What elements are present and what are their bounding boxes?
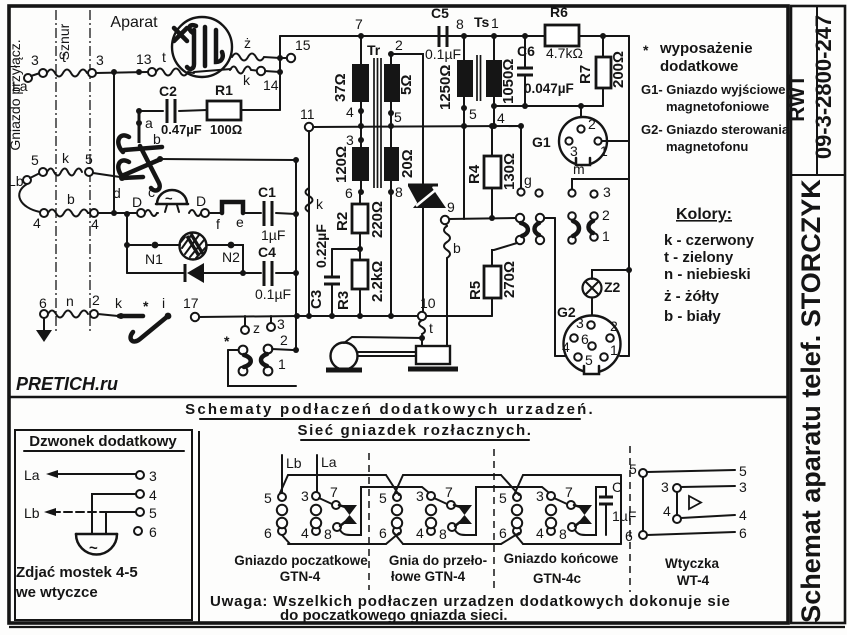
junction node row1-b (136, 69, 142, 75)
svg-text:4: 4 (562, 339, 570, 355)
junction bus126 R4 (489, 123, 495, 129)
svg-text:C2: C2 (159, 83, 177, 99)
svg-text:14: 14 (263, 77, 279, 93)
svg-text:*: * (224, 333, 230, 349)
cord zone dash-dot line left (55, 10, 57, 333)
svg-text:g: g (524, 172, 532, 188)
terminal 5 apparatus side (85, 151, 93, 176)
svg-text:R2: R2 (334, 212, 351, 231)
transformer Ts (437, 14, 517, 110)
junction node 14 (277, 69, 283, 75)
dzwonek wiring to ringer (92, 494, 136, 533)
svg-text:R7: R7 (577, 65, 594, 84)
junction bus w1 (358, 123, 364, 129)
b conductor squiggle (444, 224, 461, 346)
socket GTN-4 pass tail to next (455, 487, 548, 535)
capacitor C4 0.1µF (255, 244, 291, 302)
hook switch contact c (140, 146, 160, 200)
dzwonek ringer (76, 534, 117, 557)
svg-text:11: 11 (300, 106, 315, 122)
wire row4 to k bar (98, 314, 118, 316)
svg-text:8: 8 (395, 184, 403, 200)
junction Ts5 bus126 (461, 123, 467, 129)
svg-text:4: 4 (91, 216, 99, 232)
node N1 (145, 242, 163, 267)
main bottom bus y316 (309, 315, 492, 317)
svg-text:5Ω: 5Ω (398, 75, 415, 95)
wire 17 to bus (199, 316, 297, 317)
dashed separator 3 (629, 446, 631, 592)
svg-text:RWT: RWT (786, 74, 809, 122)
svg-text:R3: R3 (335, 291, 352, 310)
terminal D left (132, 194, 145, 217)
contact group box (228, 350, 296, 386)
svg-text:4: 4 (346, 104, 354, 120)
terminal 14 (257, 67, 279, 93)
svg-text:3: 3 (277, 316, 285, 332)
svg-text:c: c (148, 184, 155, 200)
svg-text:we wtyczce: we wtyczce (15, 584, 98, 601)
svg-text:3: 3 (416, 488, 424, 504)
svg-text:4.7kΩ: 4.7kΩ (546, 45, 583, 61)
svg-text:3: 3 (149, 468, 157, 484)
legend G2 (641, 122, 790, 154)
wire riser x280 (279, 36, 281, 110)
socket3 right edge (620, 475, 622, 544)
svg-text:R1: R1 (215, 82, 233, 98)
junction Ts4 bus126 (491, 123, 497, 129)
socket GTN-4c end hull top (523, 474, 621, 476)
node 3 tap (346, 132, 364, 148)
connector G2 (555, 304, 629, 376)
svg-text:5: 5 (739, 463, 747, 479)
junction node right riser top (293, 157, 299, 163)
svg-text:3: 3 (576, 315, 584, 331)
socket GTN-4 initial tail to next (340, 487, 428, 535)
socket GTN-4 initial contact 6 (264, 525, 286, 541)
svg-text:4: 4 (301, 525, 309, 541)
socket GTN-4c end contact 7 (565, 484, 575, 509)
svg-text:1: 1 (602, 228, 610, 244)
wire 15 stub (280, 57, 287, 59)
socket GTN-4c end tail to next (575, 487, 606, 535)
svg-text:3: 3 (570, 143, 578, 159)
svg-text:4: 4 (663, 503, 671, 519)
svg-text:i: i (162, 295, 165, 311)
svg-text:100Ω: 100Ω (210, 122, 242, 137)
socket GTN-4 pass hull top (403, 474, 501, 476)
svg-text:3: 3 (346, 132, 354, 148)
svg-text:1: 1 (610, 342, 618, 358)
junction node row1-a (111, 69, 117, 75)
wire row3 to D (98, 212, 137, 214)
svg-text:6: 6 (581, 331, 589, 347)
svg-text:17: 17 (183, 295, 199, 311)
svg-text:6: 6 (345, 185, 353, 201)
svg-text:D: D (132, 194, 142, 210)
svg-text:5: 5 (394, 109, 402, 125)
junction 11 bus bottom (306, 313, 312, 319)
wire t squiggle to dial (156, 69, 194, 76)
wire winding8 column (390, 192, 392, 316)
svg-text:6: 6 (149, 524, 157, 540)
socket GTN-4 initial contact 5 (264, 490, 286, 506)
svg-text:6: 6 (379, 525, 387, 541)
terminal 10 (418, 295, 436, 320)
legend Kolory (664, 206, 755, 325)
svg-text:C3: C3 (308, 290, 325, 309)
dzwonek terminal 3 (136, 468, 157, 484)
terminal 4 socket side (33, 209, 48, 231)
socket GTN-4c end contact 4 (536, 525, 555, 541)
capacitor C2 (159, 83, 202, 137)
title block strip (791, 6, 845, 623)
svg-text:*: * (143, 298, 149, 314)
svg-text:3: 3 (536, 488, 544, 504)
terminal 3 socket side (39, 69, 47, 77)
junction diode row (240, 270, 246, 276)
terminal 17 (183, 295, 199, 321)
svg-text:5: 5 (629, 461, 637, 477)
svg-text:20Ω: 20Ω (399, 149, 416, 178)
dzwonek note (15, 564, 138, 601)
svg-text:5: 5 (499, 490, 507, 506)
socket GTN-4 pass wire 3 to 7 (434, 498, 447, 504)
wire f-e to C1 (243, 212, 261, 214)
svg-text:n: n (66, 293, 74, 309)
strap f-e (216, 202, 244, 232)
wire C4 to riser (276, 272, 296, 274)
svg-text:0.47µF: 0.47µF (161, 122, 202, 137)
svg-text:C: C (612, 479, 622, 495)
caption socket2 (389, 553, 487, 584)
socket GTN-4 pass contact 3 (416, 488, 435, 504)
t conductor squiggle (419, 320, 433, 337)
wire R1 to riser (241, 109, 280, 111)
svg-text:Z2: Z2 (604, 279, 621, 295)
svg-text:GTN-4: GTN-4 (280, 569, 321, 584)
wire t cord conductor (47, 70, 87, 77)
socket GTN-4 initial contact 8 (324, 523, 341, 542)
riser x296 main (295, 160, 297, 350)
svg-text:4: 4 (497, 110, 505, 126)
junction R4 bottom (489, 215, 495, 221)
svg-text:2: 2 (395, 37, 403, 53)
socket GTN-4 initial plug wedge (339, 505, 357, 526)
socket GTN-4 initial contact 3 (301, 488, 320, 504)
dzwonek terminal 6 (134, 524, 157, 540)
svg-text:13: 13 (136, 51, 152, 67)
dzwonek terminal 5 (136, 505, 157, 521)
svg-text:3: 3 (739, 479, 747, 495)
svg-text:5: 5 (469, 106, 477, 122)
wire diode row left (127, 272, 184, 274)
svg-text:m: m (573, 161, 585, 177)
svg-text:Lb: Lb (8, 173, 24, 189)
svg-text:Schemat aparatu telef. STORCZY: Schemat aparatu telef. STORCZYK (796, 179, 826, 623)
svg-text:Sieć gniazdek rozłacznych.: Sieć gniazdek rozłacznych. (297, 422, 532, 439)
resistor R1 100Ω (207, 82, 242, 137)
varistor element (158, 233, 228, 260)
right riser x629 (628, 36, 630, 356)
junction 17-bus riser (294, 313, 300, 319)
contact pair left (*) (224, 333, 251, 375)
svg-text:La: La (12, 78, 28, 94)
wire row1 to terminal 13 (96, 72, 148, 73)
terminal D right (196, 193, 209, 217)
socket GTN-4c end hull bottom (523, 543, 621, 545)
capacitor C1 1µF (258, 184, 285, 243)
svg-text:270Ω: 270Ω (501, 261, 518, 298)
hook switch contact a (136, 113, 153, 143)
wire N2 corner (234, 245, 243, 273)
junction R3 bus (357, 313, 363, 319)
terminal 3 bottom (267, 316, 285, 332)
socket GTN-4c end spring 3-4 (546, 505, 556, 528)
svg-text:7: 7 (445, 484, 453, 500)
svg-text:Ts: Ts (474, 14, 490, 30)
svg-text:C6: C6 (517, 43, 535, 59)
resistor R6 4.7kΩ (545, 4, 583, 61)
svg-text:R5: R5 (467, 281, 484, 300)
svg-text:wyposażenie: wyposażenie (659, 40, 753, 57)
socket GTN-4c end contact 5 (499, 490, 521, 506)
wire riser x127 (126, 214, 128, 273)
terminal z (241, 316, 260, 336)
wire C2 to R1 (179, 110, 207, 111)
svg-text:5: 5 (85, 151, 93, 167)
svg-text:7: 7 (355, 16, 363, 32)
socket GTN-4c end contact 6 (499, 525, 521, 541)
svg-text:k: k (316, 196, 324, 212)
dzwonek title (24, 433, 184, 451)
node N2 (222, 242, 240, 265)
svg-text:Gniazdo poczatkowe: Gniazdo poczatkowe (234, 553, 368, 568)
socket GTN-4 pass contact 6 (379, 525, 401, 541)
socket GTN-4c end plug wedge (574, 505, 592, 526)
svg-text:a: a (145, 115, 153, 131)
bottom section title (185, 401, 595, 419)
svg-text:4: 4 (536, 525, 544, 541)
svg-text:k: k (243, 72, 251, 88)
k conductor squiggle vertical (306, 188, 325, 212)
caption WT-4 (665, 556, 720, 588)
socket GTN-4c end contact 8 (559, 523, 576, 542)
hook switch contact b lower hook (118, 159, 161, 177)
svg-text:3: 3 (31, 52, 39, 68)
svg-text:09-3-2800-247: 09-3-2800-247 (811, 15, 836, 159)
socket GTN-4 pass contact 5 (379, 490, 401, 506)
wire 9 row (449, 218, 516, 219)
terminal 5 socket side (39, 168, 47, 176)
resistor R5 270Ω (467, 243, 518, 316)
dashed separator 2 (493, 449, 495, 590)
svg-text:4: 4 (33, 215, 41, 231)
svg-text:magnetofoniowe: magnetofoniowe (666, 99, 769, 114)
plug WT-4 body (643, 477, 701, 531)
connector G1 (532, 116, 629, 168)
junction R2R3 (357, 246, 363, 252)
junction N row left (124, 242, 130, 248)
caption socket1 (234, 553, 368, 584)
junction C1 riser (293, 211, 299, 217)
svg-text:0.22µF: 0.22µF (313, 224, 329, 268)
contact pair right 1-2 (261, 332, 293, 375)
svg-text:Zdjać mostek 4-5: Zdjać mostek 4-5 (16, 564, 138, 581)
junction Z2 riser (626, 267, 632, 273)
socket GTN-4 pass spring 5-6 (392, 505, 402, 528)
wire y106 row (522, 103, 528, 109)
terminal 15 (287, 37, 311, 62)
svg-text:1: 1 (491, 15, 499, 31)
junction bus w2 (388, 123, 394, 129)
svg-text:1050Ω: 1050Ω (500, 59, 517, 104)
svg-text:4: 4 (416, 525, 424, 541)
svg-text:1250Ω: 1250Ω (437, 65, 454, 110)
socket1 hull left slants (280, 475, 290, 544)
lamp Z2 (583, 270, 630, 316)
m link (568, 161, 629, 200)
svg-text:15: 15 (295, 37, 311, 53)
svg-text:220Ω: 220Ω (369, 201, 386, 238)
svg-text:k - czerwony: k - czerwony (664, 232, 755, 249)
terminal Lb (8, 173, 40, 189)
junction row3-b (124, 211, 130, 217)
svg-text:0.1µF: 0.1µF (425, 46, 461, 62)
svg-text:9: 9 (447, 199, 455, 215)
svg-text:~: ~ (89, 540, 98, 557)
svg-text:*: * (643, 42, 649, 58)
svg-text:5: 5 (149, 505, 157, 521)
svg-text:ż - żółty: ż - żółty (664, 288, 720, 305)
plug WT-4 contact 5 (629, 461, 747, 479)
svg-text:n - niebieski: n - niebieski (664, 266, 751, 283)
svg-text:R4: R4 (466, 164, 483, 184)
plug WT-4 contact 6 (625, 525, 747, 544)
socket GTN-4 initial wire 3 to 7 (319, 498, 332, 504)
node 5 tap (388, 102, 402, 147)
svg-text:0.047µF: 0.047µF (524, 81, 574, 96)
socket1 lead La (317, 454, 337, 492)
svg-text:do poczatkowego gniazda sieci.: do poczatkowego gniazda sieci. (280, 607, 508, 624)
svg-text:magnetofonu: magnetofonu (666, 139, 748, 154)
svg-text:t: t (429, 320, 433, 336)
subtitle siec gniazdek (297, 422, 532, 440)
svg-text:G1- Gniazdo wyjściowe: G1- Gniazdo wyjściowe (641, 82, 785, 97)
plug WT-4 contact 3 (661, 479, 747, 495)
svg-text:0.1µF: 0.1µF (255, 286, 291, 302)
wire riser x114 row1 to row3 (113, 72, 115, 213)
resistor R7 200Ω (577, 36, 627, 106)
cord zone dash-dot line right (89, 10, 91, 333)
svg-text:G1: G1 (532, 134, 551, 150)
socket1 lead Lb (282, 455, 302, 493)
svg-text:b: b (453, 240, 461, 256)
terminal 11 (300, 106, 315, 131)
junction col8 bus (388, 313, 394, 319)
arc Lb to row 4 (19, 184, 40, 212)
terminal 6 (39, 295, 48, 318)
svg-text:2: 2 (602, 207, 610, 223)
svg-text:Gniazdo końcowe: Gniazdo końcowe (504, 551, 619, 566)
junction node 8 top (456, 16, 467, 39)
svg-text:1: 1 (600, 143, 608, 159)
wire 14 to junction (265, 71, 280, 72)
junction R6 right (600, 33, 606, 39)
switch i arm (131, 295, 172, 341)
diac symmetrical trigger (408, 185, 446, 312)
svg-text:La: La (321, 454, 337, 470)
svg-text:Gnia do przeło-: Gnia do przeło- (389, 553, 487, 568)
svg-text:N2: N2 (222, 249, 240, 265)
contact pair R4 row (516, 214, 555, 244)
capacitor C 1µF socket3 (599, 479, 636, 535)
junction node C2 row (136, 108, 142, 114)
svg-text:łowe GTN-4: łowe GTN-4 (391, 569, 466, 584)
svg-text:3: 3 (661, 479, 669, 495)
contact pair m row (568, 207, 610, 244)
wire mic-receiver pair (358, 351, 416, 353)
terminal 2 (90, 292, 100, 318)
svg-text:1µF: 1µF (261, 227, 285, 243)
svg-text:PRETICH.ru: PRETICH.ru (16, 374, 118, 394)
svg-text:z: z (253, 320, 260, 336)
svg-text:2.2kΩ: 2.2kΩ (369, 261, 386, 302)
junction G1 pin2 drop (578, 103, 584, 109)
riser 11 down (308, 131, 310, 316)
node 8 (388, 181, 403, 200)
node 7 (355, 16, 364, 39)
junction hook to wire (157, 156, 163, 162)
wire hook row to right riser (160, 159, 296, 160)
ground (36, 318, 52, 342)
svg-text:7: 7 (565, 484, 573, 500)
svg-text:Tr: Tr (367, 42, 381, 58)
wire n cord conductor (48, 293, 88, 318)
socket chain slants (386, 475, 403, 495)
capacitor C5 0.1µF (425, 5, 461, 62)
caption socket3 (504, 551, 619, 586)
terminal 4 apparatus side (90, 209, 99, 232)
svg-text:7: 7 (330, 484, 338, 500)
socket GTN-4c end contact 3 (536, 488, 555, 504)
capacitor C3 0.22µF (308, 224, 360, 316)
wire b cord conductor (48, 191, 90, 217)
svg-text:e: e (236, 214, 244, 230)
svg-text:200Ω: 200Ω (610, 51, 627, 88)
svg-text:C5: C5 (431, 5, 449, 21)
wire squiggle to ringer (145, 210, 158, 216)
g break terminals (517, 123, 542, 197)
svg-text:f: f (216, 216, 220, 232)
terminal La (12, 73, 40, 94)
dial mechanism circle (172, 17, 232, 77)
svg-text:b - biały: b - biały (664, 308, 721, 325)
svg-text:R6: R6 (550, 4, 568, 20)
svg-text:ż: ż (244, 35, 251, 51)
socket GTN-4 pass plug wedge (454, 505, 472, 526)
wire N row left (127, 244, 151, 246)
socket GTN-4 initial contact 7 (330, 484, 340, 509)
socket GTN-4c end wire 3 to 7 (554, 498, 567, 504)
junction C4 riser (293, 270, 299, 276)
svg-text:37Ω: 37Ω (332, 73, 349, 102)
wire D to f-e link (209, 212, 222, 214)
wire row2 to contact d (93, 173, 120, 177)
svg-text:La: La (24, 467, 40, 483)
svg-text:6: 6 (39, 295, 47, 311)
divider line bottom panel (198, 431, 200, 622)
